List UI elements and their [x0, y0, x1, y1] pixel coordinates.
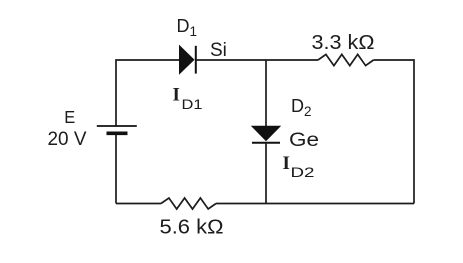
wire: battery + up to top-left corner and right to D1 anode: [116, 60, 180, 126]
wire: bottom-left corner to resistor R2: [116, 203, 161, 205]
svg-text:Si: Si: [210, 40, 227, 61]
svg-text:E: E: [64, 107, 75, 127]
node A: wire from node to resistor R1: [266, 59, 318, 61]
svg-text:I: I: [283, 153, 290, 174]
label I_D2 current: [283, 153, 315, 180]
wire: R2 to bottom-right corner: [216, 203, 414, 205]
wire: D1 cathode to node A: [196, 59, 266, 61]
label I_D1 current: [173, 85, 203, 113]
svg-text:20 V: 20 V: [48, 129, 87, 150]
resistor R1 (3.3 k ohm) zigzag: [318, 54, 374, 65]
svg-text:D1: D1: [182, 96, 203, 112]
svg-text:I: I: [173, 85, 180, 106]
svg-text:5.6 kΩ: 5.6 kΩ: [160, 216, 224, 239]
diode D2: [252, 126, 280, 143]
svg-text:Ge: Ge: [289, 129, 319, 151]
resistor R2 (5.6 k ohm) zigzag: [161, 198, 216, 209]
diode D1: [180, 46, 196, 74]
wire: battery - down to bottom-left corner: [115, 135, 117, 204]
svg-text:D2: D2: [291, 96, 312, 119]
wire: node A down to D2 anode: [265, 60, 267, 127]
wire: R1 to top-right corner and down right side: [374, 60, 415, 204]
battery E: short thick plate: [107, 132, 128, 136]
wire: D2 cathode down to bottom wire: [265, 143, 267, 204]
svg-text:3.3 kΩ: 3.3 kΩ: [312, 32, 375, 54]
svg-text:D2: D2: [291, 164, 315, 180]
battery E: long thin plate: [97, 125, 137, 127]
svg-text:D1: D1: [177, 16, 198, 39]
